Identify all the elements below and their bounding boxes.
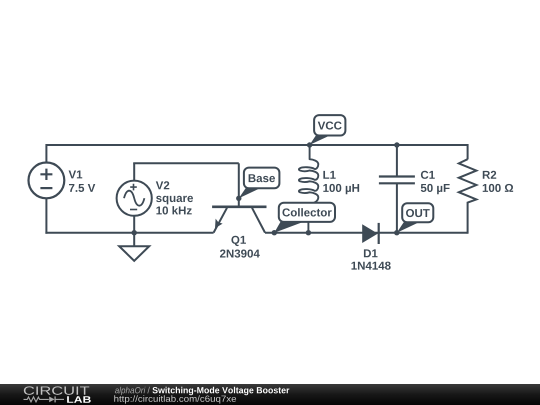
label R2 100 Ohm	[483, 171, 496, 179]
footer url	[114, 395, 236, 403]
wire bottom-mid rail	[265, 232, 468, 234]
pin flag Collector	[274, 203, 335, 233]
node L1 bottom junction dot	[306, 230, 311, 235]
transistor Q1	[212, 207, 266, 233]
node OUT junction dot	[394, 230, 399, 235]
voltage source V2 (function generator)	[117, 181, 152, 216]
label V2 square 10 kHz	[156, 181, 170, 189]
wire V2 top stub	[133, 163, 135, 180]
wire C1 top stub	[396, 145, 398, 177]
label C1 50 uF	[421, 171, 435, 179]
wire left rail bottom segment	[45, 198, 47, 233]
wire C1 bottom stub	[396, 183, 398, 232]
resistor R2	[459, 159, 477, 202]
ground	[119, 246, 149, 261]
wire V2 bottom stub	[133, 216, 135, 233]
net flag VCC	[310, 115, 346, 145]
wire right rail bottom segment	[467, 202, 469, 234]
net flag OUT	[397, 203, 434, 232]
label D1 1N4148	[364, 249, 378, 257]
wire ground stub	[133, 233, 135, 247]
node C1 top junction dot	[394, 142, 399, 147]
pin flag Base	[239, 168, 280, 199]
wire top rail	[46, 144, 467, 146]
node collector dot	[272, 230, 277, 235]
wire right rail top segment	[467, 144, 469, 159]
node V2-ground junction dot	[132, 230, 137, 235]
footer title	[115, 387, 146, 395]
inductor L1	[299, 145, 318, 233]
wire bottom-left rail	[45, 232, 213, 234]
wire base lead	[238, 163, 240, 207]
label V1 7.5 V	[69, 170, 83, 178]
diode D1	[362, 223, 379, 244]
CircuitLab logo	[24, 386, 91, 402]
capacitor C1	[379, 177, 415, 184]
node VCC junction dot	[307, 142, 312, 147]
label Q1 2N3904	[231, 236, 246, 246]
label L1 100 uH	[323, 171, 335, 179]
voltage source V1	[29, 163, 65, 199]
wire left rail top segment	[45, 144, 47, 163]
wire V2 top	[134, 163, 239, 164]
node base dot	[236, 196, 241, 201]
